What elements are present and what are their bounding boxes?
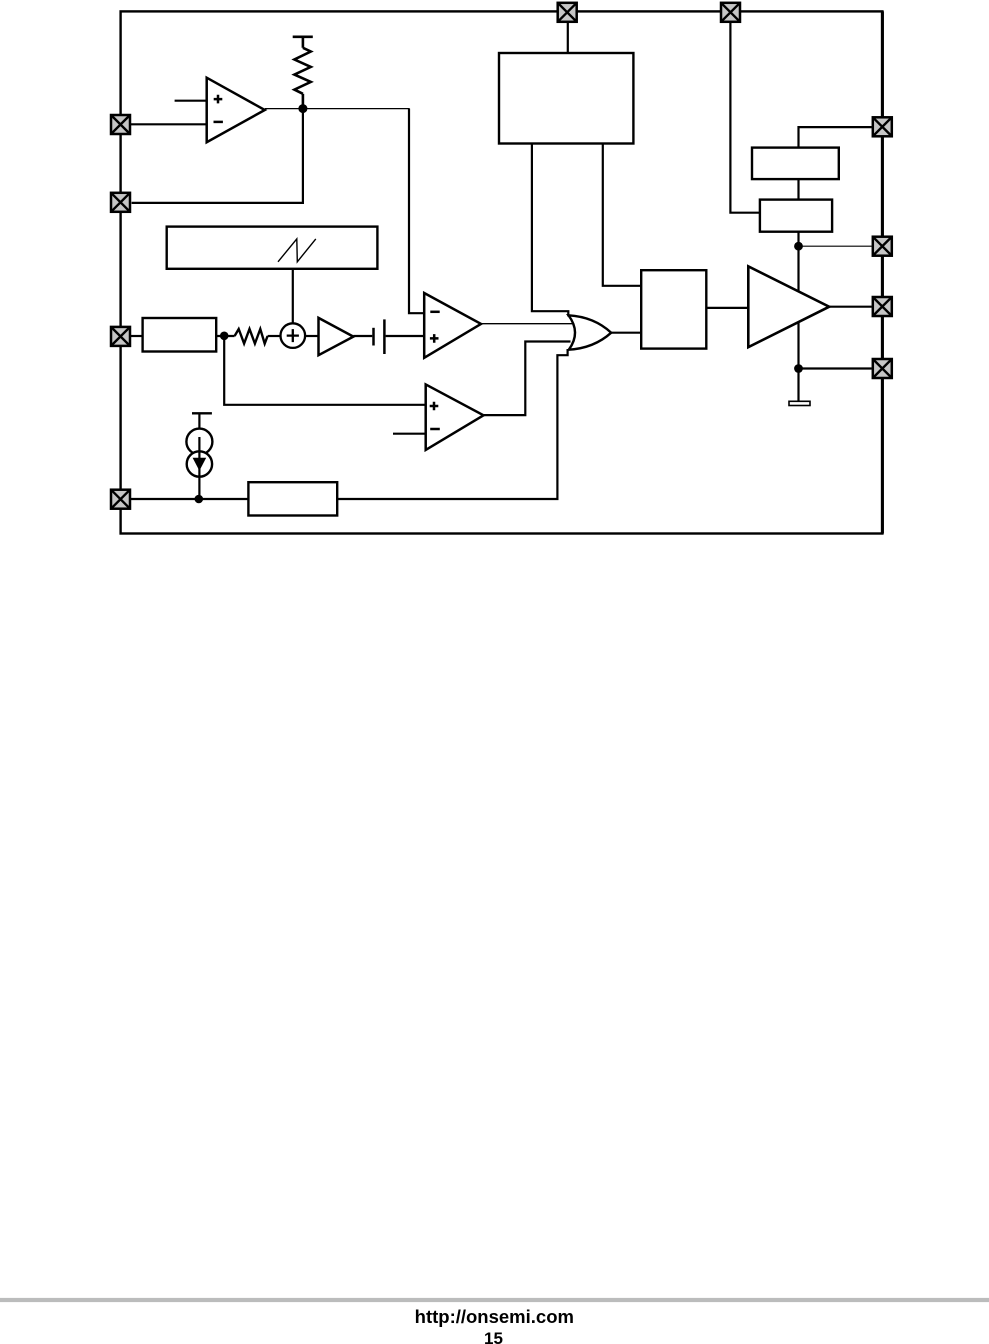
svg-text:http://onsemi.com: http://onsemi.com	[415, 1306, 574, 1327]
svg-text:15: 15	[484, 1329, 503, 1344]
